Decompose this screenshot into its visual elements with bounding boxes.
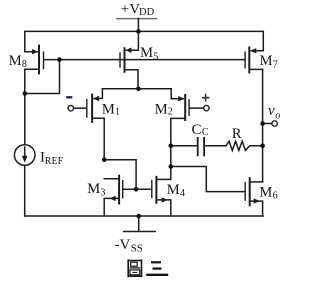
svg-text:SS: SS [131,243,143,255]
svg-text:DD: DD [139,7,155,18]
svg-text:7: 7 [273,59,278,70]
svg-text:v: v [268,103,275,119]
svg-text:M: M [102,101,115,117]
svg-text:M: M [259,185,272,201]
svg-text:M: M [167,182,180,198]
svg-text:R: R [232,126,242,142]
svg-text:1: 1 [115,107,120,118]
svg-text:M: M [260,53,273,69]
svg-text:M: M [140,45,153,61]
svg-text:REF: REF [45,156,64,167]
svg-text:8: 8 [22,59,27,70]
svg-text:C: C [192,122,202,138]
svg-text:6: 6 [273,191,278,202]
svg-text:5: 5 [153,51,158,62]
svg-text:M: M [87,181,100,197]
svg-text:M: M [9,53,22,69]
svg-text:2: 2 [168,107,173,118]
svg-text:-V: -V [115,237,131,253]
svg-text:o: o [275,111,280,122]
svg-text:4: 4 [180,188,185,199]
svg-text:C: C [202,127,209,138]
svg-text:+V: +V [121,2,140,18]
svg-text:M: M [155,101,168,117]
svg-text:3: 3 [100,187,105,198]
